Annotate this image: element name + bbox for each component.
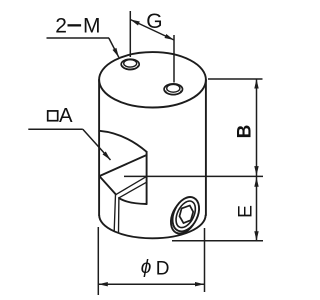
svg-text:A: A (59, 105, 73, 127)
svg-text:D: D (156, 259, 170, 280)
svg-text:2: 2 (55, 15, 67, 38)
svg-text:G: G (146, 10, 162, 33)
svg-text:E: E (234, 205, 256, 218)
svg-text:ϕ: ϕ (141, 257, 152, 278)
svg-text:B: B (235, 125, 256, 139)
svg-text:M: M (83, 15, 101, 38)
